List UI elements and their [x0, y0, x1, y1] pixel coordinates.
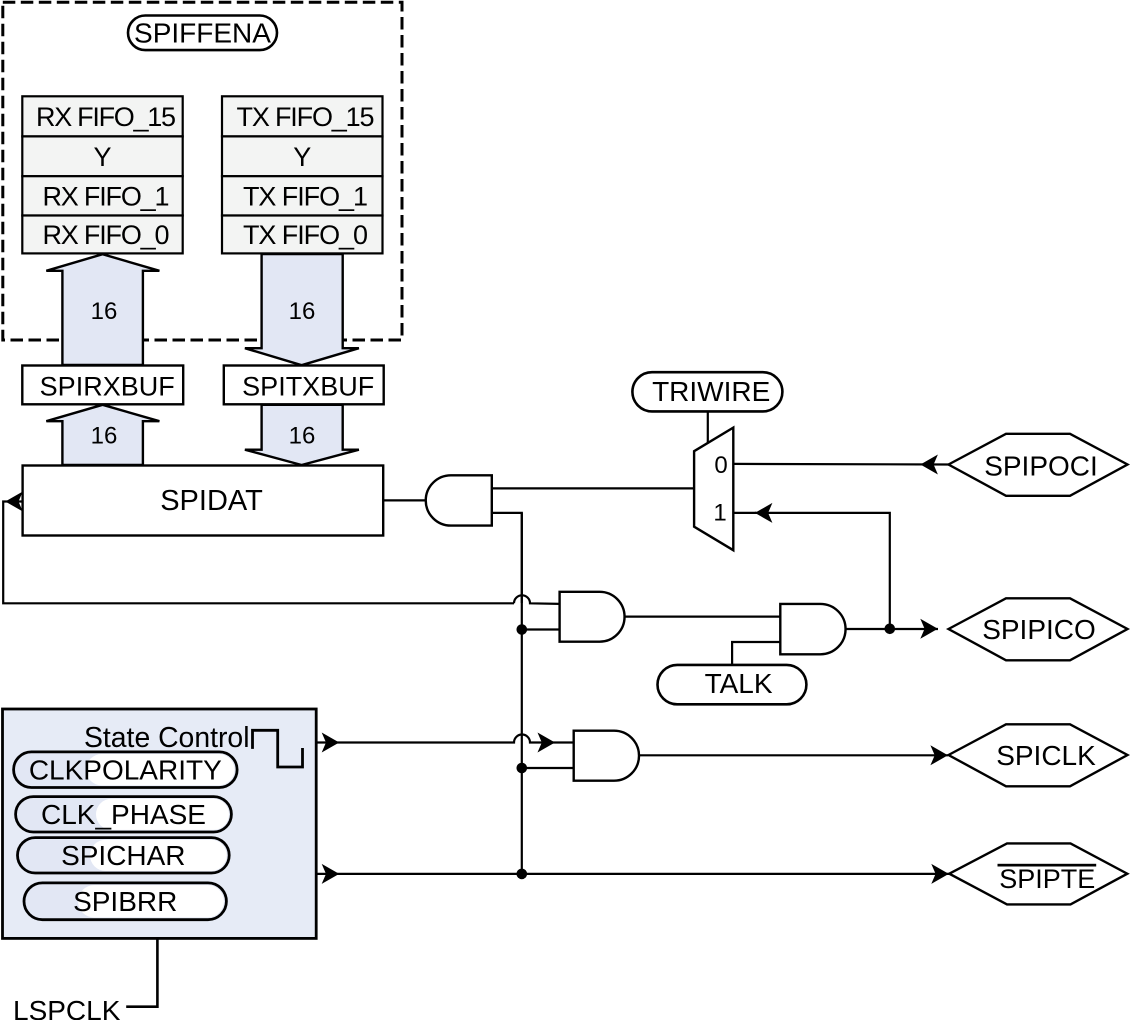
and-gate G3 (TALK gate driving SPIPICO) [780, 604, 845, 654]
bus block arrow down SPITXBUF to SPIDAT (16-bit) [245, 405, 359, 465]
svg-text:TRIWIRE: TRIWIRE [652, 376, 770, 407]
svg-text:TX FIFO_15: TX FIFO_15 [237, 102, 375, 132]
wire mux input 0 from SPIPOCI pin [733, 463, 948, 466]
svg-text:RX FIFO_0: RX FIFO_0 [43, 220, 170, 250]
svg-text:TX FIFO_0: TX FIFO_0 [243, 220, 368, 250]
svg-text:RX FIFO_1: RX FIFO_1 [43, 182, 170, 212]
arrowhead into mux input 1 (pointing left) [755, 503, 773, 523]
SPICHAR control oval [18, 838, 230, 873]
CLKPOLARITY control oval [14, 752, 238, 788]
svg-text:16: 16 [91, 423, 118, 450]
State Control box [3, 709, 317, 938]
svg-text:RX FIFO_15: RX FIFO_15 [36, 102, 176, 132]
wire G3 output to SPIPICO pin [846, 628, 938, 630]
svg-text:SPIFFENA: SPIFFENA [134, 18, 271, 49]
svg-text:SPIPICO: SPIPICO [982, 614, 1096, 645]
svg-text:SPIDAT: SPIDAT [160, 485, 263, 517]
SPITXBUF register box [224, 366, 384, 405]
wire SPIDAT serial out left feedback [3, 502, 514, 604]
svg-text:SPICLK: SPICLK [996, 740, 1096, 771]
svg-text:16: 16 [289, 298, 316, 325]
vertical bus line [521, 513, 523, 874]
wire bus junction to G4 bottom input [522, 767, 574, 769]
wire TRIWIRE select to mux [707, 411, 709, 443]
wire G4 output to SPICLK pin [639, 754, 948, 756]
junction dot bus to G4 [517, 763, 528, 774]
wire G1 input B from vertical bus [492, 513, 522, 603]
svg-text:16: 16 [91, 298, 118, 325]
wire G1 input A from mux output [492, 487, 694, 489]
wire mux input 1 stub [733, 512, 756, 514]
svg-text:TALK: TALK [705, 668, 773, 699]
CLK_PHASE control oval [16, 797, 232, 832]
junction dot bus end on SPIPTE line [517, 869, 528, 880]
svg-text:0: 0 [714, 452, 727, 479]
TRIWIRE oval label [632, 372, 782, 411]
SPIFFENA dashed FIFO region box [3, 2, 402, 340]
bus block arrow down TX FIFO to SPITXBUF (16-bit) [245, 254, 359, 365]
svg-text:SPIPOCI: SPIPOCI [984, 451, 1098, 482]
arrowhead into SPIPTE (pointing right) [931, 864, 949, 884]
svg-text:Y: Y [93, 142, 111, 172]
and-gate G1 (left-facing, drives SPIDAT shift in) [426, 475, 492, 525]
svg-text:State Control: State Control [84, 722, 250, 754]
wire LSPCLK to State Control box [126, 938, 157, 1006]
junction dot bus to G2 [517, 624, 528, 635]
arrowhead after State Control box (pointing right) [322, 733, 340, 753]
wire State Control clock output to G4 [316, 735, 574, 743]
clock waveform icon [253, 730, 303, 767]
TX FIFO stack [222, 96, 383, 253]
arrowhead out of SPIDAT left edge [5, 492, 23, 512]
arrowhead after State Control box bottom output (pointing right) [322, 864, 340, 884]
svg-text:SPIRXBUF: SPIRXBUF [40, 372, 175, 402]
wire State Control enable output to SPIPTE pin [316, 873, 949, 875]
arrowhead into SPICLK (pointing right) [930, 745, 948, 765]
wire mux input 1 loopback from SPIPICO node [755, 513, 890, 629]
RX FIFO stack [22, 96, 182, 253]
svg-text:CLK_PHASE: CLK_PHASE [41, 799, 206, 830]
svg-text:CLKPOLARITY: CLKPOLARITY [29, 755, 222, 786]
and-gate G4 (SPICLK gate) [574, 731, 639, 781]
SPIPICO pin hexagon [949, 598, 1128, 660]
svg-text:SPIPTE: SPIPTE [999, 864, 1095, 894]
SPIDAT shift register box [23, 466, 384, 536]
SPICLK pin hexagon [949, 724, 1128, 786]
junction dot SPIPICO loopback node [885, 624, 896, 635]
TALK oval [658, 665, 807, 704]
svg-text:TX FIFO_1: TX FIFO_1 [243, 182, 368, 212]
and-gate G2 (shift clock gate) [560, 592, 625, 642]
mux M1 trapezoid [694, 428, 733, 551]
wire feedback hop over vertical bus [514, 595, 560, 604]
SPIFFENA oval label [128, 16, 277, 51]
SPIPOCI pin hexagon [949, 434, 1128, 496]
svg-text:LSPCLK: LSPCLK [13, 995, 121, 1020]
svg-text:SPITXBUF: SPITXBUF [242, 372, 374, 402]
wire G2 output to G3 input [625, 615, 781, 617]
arrowhead into SPIPICO (pointing right) [920, 619, 938, 639]
bus block arrow up SPIDAT to SPIRXBUF (16-bit) [46, 405, 159, 465]
wire G2 bottom input from bus junction [522, 628, 560, 630]
svg-text:SPIBRR: SPIBRR [73, 886, 177, 917]
bus block arrow up RX FIFO to SPIRXBUF path (16-bit) [46, 254, 159, 365]
wire TALK to G3 bottom input [732, 642, 780, 665]
SPIBRR control oval [24, 883, 226, 920]
arrowhead into G4 after hop (pointing right) [538, 733, 556, 753]
wire G1 output to SPIDAT right edge [383, 499, 426, 501]
svg-text:16: 16 [289, 423, 316, 450]
svg-text:Y: Y [293, 142, 311, 172]
SPIPTE pin hexagon (active low) [949, 843, 1127, 904]
svg-text:1: 1 [713, 500, 726, 527]
arrowhead into mux input 0 (pointing left) [920, 455, 938, 475]
SPIRXBUF register box [22, 366, 183, 405]
svg-text:SPICHAR: SPICHAR [61, 840, 185, 871]
